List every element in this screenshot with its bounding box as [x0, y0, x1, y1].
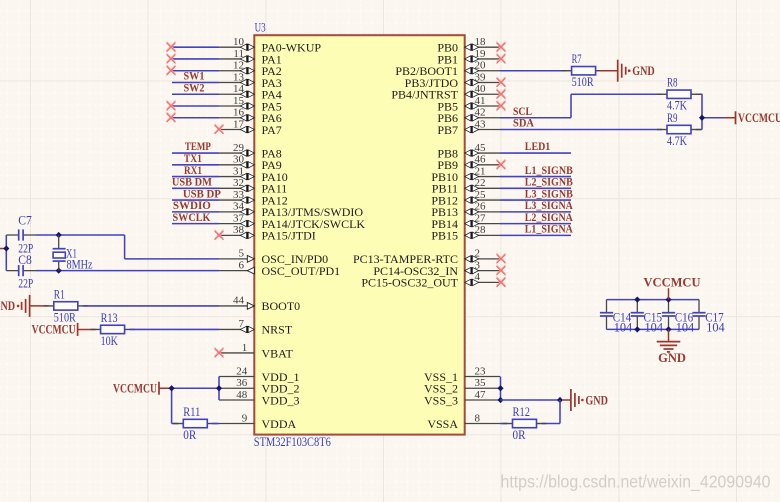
pin 34 (PA13/JTMS/SWDIO) left [219, 201, 363, 220]
wire PA6 stub [171, 117, 219, 119]
svg-text:104: 104 [706, 320, 725, 334]
svg-text:23: 23 [475, 365, 487, 377]
svg-text:31: 31 [233, 165, 244, 177]
pin 44 (BOOT0) left [219, 295, 300, 314]
svg-text:22: 22 [475, 177, 486, 189]
svg-text:U3: U3 [255, 21, 266, 35]
svg-text:VDD_3: VDD_3 [262, 393, 300, 407]
wire PA1 stub [171, 58, 219, 60]
wire GND stub to edge [0, 248, 5, 250]
pin 40 (PB4/JNTRST) right [391, 83, 500, 102]
wire R9 right lead [696, 129, 702, 131]
pin 28 (PB15) right [431, 224, 500, 243]
svg-text:45: 45 [475, 142, 487, 154]
wire net USB DM [172, 187, 219, 189]
svg-text:GND: GND [632, 64, 655, 78]
svg-text:17: 17 [233, 118, 245, 130]
svg-text:R13: R13 [101, 311, 118, 325]
power port VCCMCU (NRST) [77, 323, 79, 336]
svg-text:https://blog.csdn.net/weixin_4: https://blog.csdn.net/weixin_42090940 [501, 471, 771, 492]
svg-text:32: 32 [233, 177, 244, 189]
svg-text:R12: R12 [513, 405, 531, 419]
wire SCL (PB6) [500, 117, 571, 119]
wire R11 to VDDA [212, 423, 219, 425]
pin 35 (VSS_2) right [424, 377, 500, 396]
resistor R1 510R [44, 305, 54, 307]
pin 32 (PA11) left [219, 177, 287, 196]
svg-text:2: 2 [475, 248, 481, 260]
svg-text:29: 29 [233, 142, 245, 154]
pin 2 (PC13-TAMPER-RTC) right [353, 248, 500, 267]
ground GND (VSS) [571, 389, 579, 411]
no-connect X right row 4 [497, 89, 505, 97]
wire net L1_SIGNA [500, 234, 571, 236]
svg-text:9: 9 [242, 412, 248, 424]
wire net L3_SIGNB [500, 199, 571, 201]
wire R11 branch vertical [171, 388, 173, 423]
pin 29 (PA8) left [219, 142, 282, 161]
junction crystal top [56, 232, 62, 238]
pin 23 (VSS_1) right [424, 365, 500, 384]
wire net SW1 [172, 81, 219, 83]
pin 18 (PB0) right [437, 36, 500, 55]
svg-text:35: 35 [475, 377, 487, 389]
svg-text:VCCMCU: VCCMCU [113, 382, 157, 396]
svg-text:10: 10 [233, 36, 245, 48]
svg-text:25: 25 [475, 189, 487, 201]
pin 41 (PB5) right [437, 95, 500, 114]
svg-text:C7: C7 [18, 214, 32, 228]
resistor R9 4.7K [657, 129, 667, 131]
svg-text:36: 36 [236, 377, 248, 389]
no-connect X on PA6 [167, 112, 175, 120]
svg-text:PC15-OSC32_OUT: PC15-OSC32_OUT [361, 276, 458, 290]
svg-text:VCCMCU: VCCMCU [32, 323, 76, 337]
wire R8 right lead [696, 93, 703, 95]
svg-text:21: 21 [475, 165, 486, 177]
wire to R11 [172, 423, 179, 425]
svg-text:20: 20 [475, 60, 487, 72]
svg-text:VDDA: VDDA [262, 417, 297, 431]
svg-text:8: 8 [475, 412, 481, 424]
no-connect X on VBAT [215, 348, 223, 356]
wire C7 to OSC_IN corner [36, 234, 125, 236]
pin 39 (PB3/JTDO) right [405, 71, 500, 90]
svg-text:10K: 10K [101, 334, 118, 348]
pin 4 (PC15-OSC32_OUT) right [361, 271, 500, 290]
ground GND (R1, left) [22, 295, 30, 317]
junction VSS_3 [497, 397, 503, 403]
pin 27 (PB14) right [431, 212, 500, 231]
wire net SW2 [172, 93, 219, 95]
svg-text:STM32F103C8T6: STM32F103C8T6 [254, 435, 331, 449]
svg-text:39: 39 [475, 71, 487, 83]
crystal X1 8MHz [53, 235, 93, 271]
wire C8 to OSC_OUT [36, 270, 219, 272]
svg-text:OSC_OUT/PD1: OSC_OUT/PD1 [262, 264, 341, 278]
svg-text:VBAT: VBAT [262, 346, 294, 360]
svg-text:R1: R1 [54, 287, 65, 301]
pin 24 (VDD_1) left [219, 365, 300, 384]
svg-text:104: 104 [614, 320, 633, 334]
svg-text:GND: GND [658, 351, 686, 365]
junction R8/R9 [699, 115, 705, 121]
svg-text:1: 1 [242, 342, 248, 354]
pin 38 (PA15/JTDI) left [219, 224, 316, 243]
junction VDD branch [169, 385, 175, 391]
pin 48 (VDD_3) left [219, 389, 300, 408]
no-connect X right row 18 [497, 254, 505, 262]
svg-text:R11: R11 [183, 405, 200, 419]
svg-text:44: 44 [233, 295, 245, 307]
wire cap bank to ground [668, 329, 670, 341]
pin 46 (PB9) right [437, 154, 500, 173]
svg-text:R8: R8 [667, 76, 678, 90]
svg-text:40: 40 [475, 83, 487, 95]
svg-text:18: 18 [475, 36, 487, 48]
no-connect X on PA7 [215, 124, 223, 132]
pin 12 (PA2) left [219, 60, 282, 79]
svg-text:5: 5 [239, 248, 245, 260]
svg-text:0R: 0R [183, 428, 197, 442]
pin 3 (PC14-OSC32_IN) right [373, 259, 500, 278]
IC U3 STM32F103C8T6 body [254, 35, 464, 434]
wire net TEMP [172, 152, 219, 154]
svg-text:46: 46 [475, 154, 487, 166]
wire VCCMCU to VDD junction [159, 387, 169, 389]
capacitor C7 22P [6, 214, 36, 256]
wire PA0 stub [171, 46, 219, 48]
svg-text:22P: 22P [18, 277, 33, 291]
wire R8/R9 join vertical [701, 94, 703, 129]
junction cap bank top C16 [665, 297, 671, 303]
junction cap bank top C15 [634, 297, 640, 303]
pin 26 (PB13) right [431, 201, 500, 220]
no-connect X on PA15 [215, 230, 223, 238]
resistor R7 510R [562, 70, 572, 72]
pin 16 (PA6) left [219, 107, 282, 126]
svg-text:PA15/JTDI: PA15/JTDI [262, 229, 316, 243]
svg-text:16: 16 [233, 107, 245, 119]
pin 30 (PA9) left [219, 154, 282, 173]
wire PA5 stub [171, 105, 219, 107]
svg-text:24: 24 [236, 365, 248, 377]
pin 14 (PA4) left [219, 83, 282, 102]
pin 19 (PB1) right [437, 48, 500, 66]
pin 5 (OSC_IN/PD0) left [219, 248, 328, 267]
svg-text:26: 26 [475, 201, 487, 213]
capacitor C8 22P [6, 253, 36, 291]
no-connect X on PA5 [167, 101, 175, 109]
svg-text:104: 104 [645, 320, 664, 334]
resistor R11 0R [173, 423, 183, 425]
svg-text:14: 14 [233, 83, 245, 95]
pin 20 (PB2/BOOT1) right [395, 60, 500, 79]
resistor R12 0R [503, 423, 513, 425]
wire net LED1 [500, 152, 571, 154]
wire net L1_SIGNB [500, 176, 571, 178]
pin 45 (PB8) right [437, 142, 500, 161]
wire cap ground bus vertical [5, 235, 7, 271]
junction VSS_2 [497, 385, 503, 391]
svg-text:VCCMCU: VCCMCU [738, 111, 780, 125]
pin 17 (PA7) left [219, 118, 282, 137]
pin 43 (PB7) right [437, 118, 500, 137]
svg-text:GND: GND [0, 299, 15, 313]
svg-text:12: 12 [233, 60, 244, 72]
wire net L2_SIGNA [500, 223, 571, 225]
svg-text:510R: 510R [572, 75, 595, 89]
svg-text:19: 19 [475, 48, 487, 60]
wire cap bank top bus [607, 299, 700, 301]
pin 6 (OSC_OUT/PD1) left [219, 259, 340, 278]
no-connect X right row 19 [497, 265, 505, 273]
no-connect X on PA1 [167, 54, 175, 62]
capacitor C17 104 [692, 300, 725, 335]
pin 1 (VBAT) left [219, 342, 294, 361]
junction GND branch [557, 397, 563, 403]
svg-text:PB15: PB15 [431, 229, 458, 243]
pin 25 (PB12) right [431, 189, 500, 208]
capacitor C15 104 [631, 300, 664, 335]
svg-text:4: 4 [475, 271, 481, 283]
wire VDD bus vertical [218, 376, 220, 400]
svg-text:38: 38 [233, 224, 245, 236]
wire VSS bus vertical [500, 376, 502, 400]
wire PA2 stub [171, 70, 219, 72]
svg-text:GND: GND [585, 393, 608, 407]
no-connect X on PA2 [167, 65, 175, 73]
svg-text:VCCMCU: VCCMCU [644, 276, 701, 290]
no-connect X right row 1 [497, 54, 505, 62]
svg-text:6: 6 [239, 259, 245, 271]
svg-text:VSS_3: VSS_3 [424, 393, 458, 407]
junction caps ground [3, 245, 9, 251]
pin 33 (PA12) left [219, 189, 288, 208]
svg-text:15: 15 [233, 95, 245, 107]
wire R12 branch [559, 400, 561, 424]
junction VDD bus [216, 385, 222, 391]
wire R13 to NRST [130, 328, 219, 330]
wire GND to R1 [30, 305, 49, 307]
wire R1 to BOOT0 [83, 305, 219, 307]
pin 7 (NRST) left [219, 318, 293, 337]
wire R7 to GND [601, 70, 618, 72]
pin 31 (PA10) left [219, 165, 288, 184]
svg-text:11: 11 [233, 48, 244, 60]
power port VCCMCU (VDD) [158, 382, 160, 395]
svg-text:PA7: PA7 [262, 123, 282, 137]
wire to VCCMCU [702, 117, 723, 119]
svg-text:8MHz: 8MHz [67, 257, 93, 271]
svg-text:NRST: NRST [262, 323, 293, 337]
svg-text:33: 33 [233, 189, 245, 201]
wire net TX1 [172, 164, 219, 166]
svg-text:VSSA: VSSA [427, 417, 458, 431]
ground GND (R7) [618, 60, 626, 82]
svg-text:R9: R9 [667, 111, 678, 125]
wire net SWDIO [172, 211, 219, 213]
wire SCL to R8 [571, 93, 662, 95]
junction cap bank bottom C15 [634, 326, 640, 332]
svg-text:30: 30 [233, 154, 245, 166]
pin 15 (PA5) left [219, 95, 282, 114]
wire SDA (PB7) to R9 [500, 129, 662, 131]
junction crystal bottom [56, 268, 62, 274]
svg-text:L1_SIGNA: L1_SIGNA [525, 222, 573, 236]
pin 10 (PA0-WKUP) left [219, 36, 321, 55]
ground GND (cap bank, earth symbol) [657, 342, 681, 352]
svg-text:SW2: SW2 [184, 80, 205, 94]
svg-text:0R: 0R [513, 428, 527, 442]
no-connect X right row 5 [497, 101, 505, 109]
no-connect X right row 20 [497, 277, 505, 285]
pin 9 (VDDA) left [219, 412, 296, 431]
svg-text:R7: R7 [572, 52, 582, 66]
wire SCL vertical jog [570, 94, 572, 118]
svg-text:SWCLK: SWCLK [173, 210, 212, 224]
junction cap bank bottom C16 [665, 326, 671, 332]
no-connect X on PA0 [167, 42, 175, 50]
pin 47 (VSS_3) right [424, 389, 500, 408]
svg-text:4.7K: 4.7K [667, 134, 687, 148]
svg-text:3: 3 [475, 259, 481, 271]
svg-text:47: 47 [475, 389, 487, 401]
svg-text:13: 13 [233, 71, 245, 83]
svg-text:LED1: LED1 [525, 139, 551, 153]
svg-text:28: 28 [475, 224, 487, 236]
pin 36 (VDD_2) left [219, 377, 300, 396]
pin 37 (PA14/JTCK/SWCLK) left [219, 212, 365, 231]
power port VCCMCU (R8/R9) [735, 111, 737, 124]
wire VSS to GND [501, 399, 561, 401]
wire PB2 to R7 [500, 70, 567, 72]
resistor R13 10K [91, 328, 101, 330]
svg-text:27: 27 [475, 212, 487, 224]
pin 22 (PB11) right [432, 177, 500, 196]
pin 42 (PB6) right [437, 107, 500, 126]
svg-text:7: 7 [239, 318, 245, 330]
no-connect X right row 0 [497, 42, 505, 50]
wire net SWCLK [172, 223, 219, 225]
svg-text:41: 41 [475, 95, 486, 107]
svg-text:34: 34 [233, 201, 245, 213]
svg-text:BOOT0: BOOT0 [262, 299, 301, 313]
pin 8 (VSSA) right [427, 412, 500, 431]
svg-text:C8: C8 [18, 253, 32, 267]
capacitor C16 104 [662, 300, 695, 335]
wire VSSA to R12 [500, 423, 508, 425]
no-connect X right row 3 [497, 77, 505, 85]
svg-text:43: 43 [475, 118, 487, 130]
wire net L2_SIGNB [500, 187, 571, 189]
resistor R8 4.7K [657, 93, 667, 95]
pin 13 (PA3) left [219, 71, 282, 90]
capacitor C14 104 [600, 300, 633, 335]
wire net USB DP [172, 199, 219, 201]
svg-text:37: 37 [233, 212, 245, 224]
svg-text:104: 104 [676, 320, 695, 334]
pin 21 (PB10) right [431, 165, 500, 184]
wire cap bank bottom bus [607, 328, 700, 330]
wire net L3_SIGNA [500, 211, 571, 213]
svg-text:PB7: PB7 [437, 123, 458, 137]
svg-text:42: 42 [475, 107, 486, 119]
pin 11 (PA1) left [219, 48, 282, 66]
wire net RX1 [172, 176, 219, 178]
no-connect X right row 10 [497, 160, 505, 168]
svg-text:48: 48 [236, 389, 248, 401]
wire VCCMCU to R13 [78, 328, 96, 330]
